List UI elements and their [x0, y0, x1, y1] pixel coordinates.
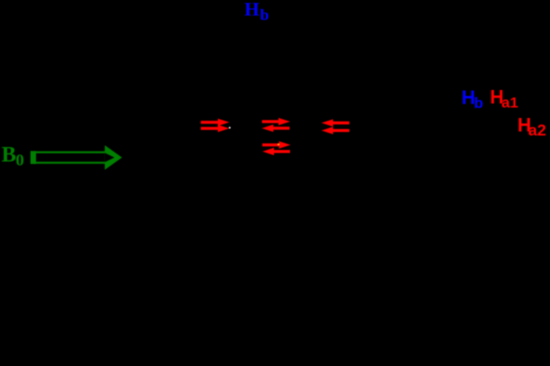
svg-text:a2: a2	[528, 123, 546, 140]
spin pair 1 (left, both arrows right)	[201, 119, 231, 133]
svg-text:0: 0	[16, 151, 25, 170]
arrow up-spin	[201, 127, 221, 130]
arrow right	[262, 143, 282, 146]
label B0 (green, applied magnetic field)	[2, 141, 25, 169]
spin pair 4 (right, both arrows left)	[322, 119, 350, 134]
label Ha1 (red)	[490, 88, 518, 112]
spin pair 2 (middle upper, antiparallel)	[262, 118, 290, 132]
artifact yellow dot	[278, 144, 280, 146]
svg-text:b: b	[474, 95, 483, 112]
arrow down-spin	[331, 121, 350, 124]
artifact white dot	[229, 127, 231, 129]
arrow left	[271, 127, 290, 130]
spin pair 3 (middle lower, antiparallel)	[262, 141, 290, 155]
arrow left	[272, 150, 291, 153]
svg-text:B: B	[2, 141, 17, 166]
svg-text:b: b	[260, 7, 269, 24]
field arrow B0 (green hollow arrow pointing right)	[31, 145, 123, 170]
svg-text:H: H	[245, 0, 260, 21]
label Ha2 (red)	[518, 115, 547, 139]
svg-text:a1: a1	[502, 95, 519, 112]
arrow right	[262, 120, 282, 123]
label Hb (right, blue)	[462, 88, 484, 112]
arrow down-spin	[331, 129, 350, 132]
label Hb (top, blue, proton b)	[245, 0, 270, 24]
arrow up-spin	[201, 121, 221, 124]
